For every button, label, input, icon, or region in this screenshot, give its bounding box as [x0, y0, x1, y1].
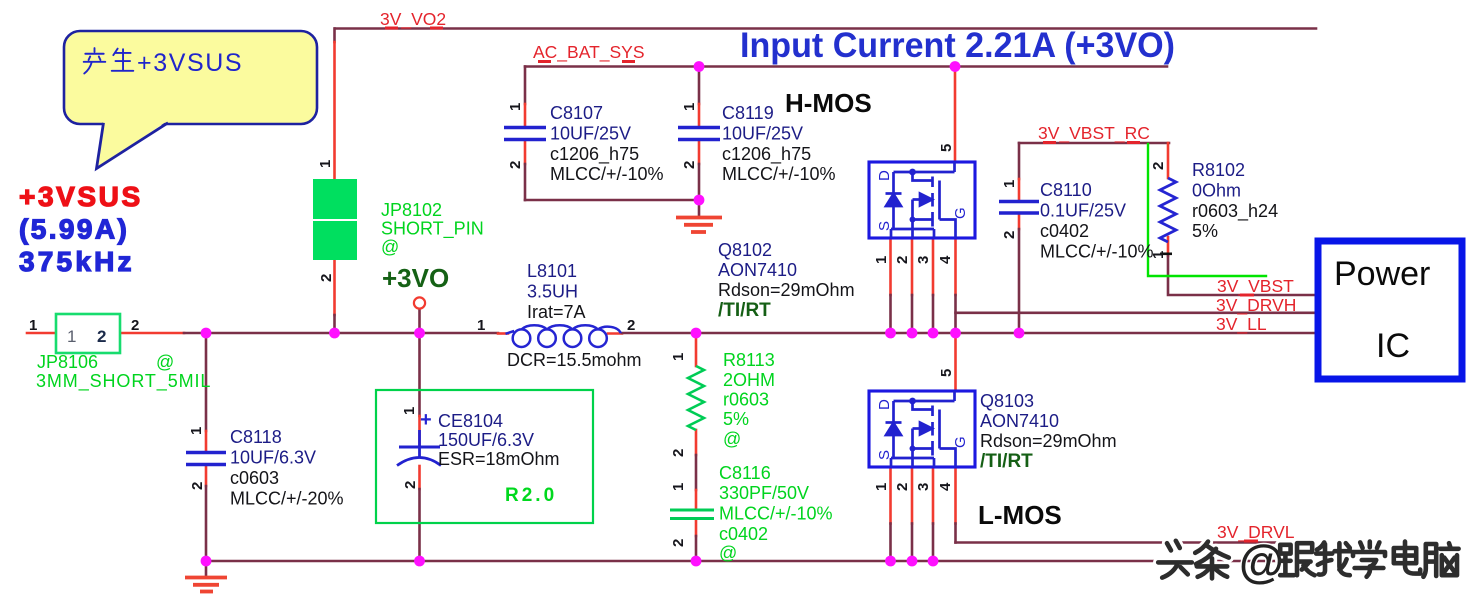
svg-text:2: 2	[131, 317, 139, 334]
svg-text:R8113: R8113	[723, 350, 775, 370]
wire 3V_VBST elbow to Power IC	[1168, 256, 1315, 295]
svg-text:1: 1	[670, 483, 687, 491]
wire C8107 left vertical bottom	[524, 164, 527, 200]
svg-text:3.5UH: 3.5UH	[527, 282, 578, 302]
wire JP8102 pin2 vertical down to +3VO rail	[333, 257, 336, 315]
pin C8116.1 stub	[695, 490, 698, 508]
pin C8110.2 stub	[1018, 214, 1021, 229]
wire L8101 pin2 stub	[608, 332, 622, 335]
pin C8116.2 stub	[695, 521, 698, 536]
svg-text:5%: 5%	[1192, 221, 1218, 241]
svg-text:2: 2	[507, 161, 524, 169]
pin C8118.1 stub	[205, 431, 208, 451]
wire 3V_VBST_RC horizontal	[1019, 142, 1169, 145]
svg-text:L-MOS: L-MOS	[978, 500, 1062, 530]
svg-text:2: 2	[318, 274, 335, 282]
svg-text:CE8104: CE8104	[438, 411, 503, 431]
mosfet Q8102 symbol	[869, 162, 975, 238]
bubble text 产生+3VSUS	[84, 48, 243, 77]
pin Q8103.4 gate wire	[954, 467, 957, 524]
svg-text:1: 1	[401, 407, 418, 415]
svg-text:MLCC/+/-10%: MLCC/+/-10%	[1040, 242, 1154, 262]
svg-text:4: 4	[937, 255, 954, 264]
svg-text:3: 3	[915, 483, 932, 491]
wire C8119 vertical top	[698, 67, 701, 105]
wire +3VO terminal stub	[418, 309, 421, 333]
svg-text:2: 2	[681, 161, 698, 169]
pin Q8102.3 wire	[932, 238, 935, 295]
pin R8113.2 stub	[695, 430, 698, 455]
resistor R8102	[1160, 178, 1176, 242]
svg-text:/TI/RT: /TI/RT	[980, 451, 1033, 472]
svg-text:4: 4	[937, 482, 954, 491]
svg-text:Irat=7A: Irat=7A	[527, 302, 586, 322]
resistor R8113	[688, 366, 704, 430]
Power IC box	[1318, 241, 1462, 379]
watermark 头条 @跟我学电脑	[1158, 535, 1458, 587]
wire CE8104 vertical top	[418, 333, 421, 416]
speech bubble tail	[97, 121, 169, 169]
svg-text:5: 5	[938, 144, 955, 152]
wire GND bottom rail	[206, 560, 1313, 563]
svg-text:c1206_h75: c1206_h75	[722, 144, 811, 165]
svg-text:10UF/25V: 10UF/25V	[550, 124, 631, 144]
wire C8118 vertical top	[205, 333, 208, 431]
junction dots on AC_BAT_SYS wire	[694, 61, 705, 72]
svg-text:@: @	[156, 352, 174, 372]
wire JP8102 pin1 vertical (3V_VO2 down to jumper)	[333, 29, 336, 43]
pin Q8102.2 wire	[911, 238, 914, 295]
svg-text:2: 2	[670, 449, 687, 457]
wire C8110 vertical top	[1018, 143, 1021, 179]
svg-text:c0603: c0603	[230, 468, 279, 488]
svg-text:5%: 5%	[723, 409, 749, 429]
junction dots on +3VO / 3V_LL rail	[201, 61, 1025, 566]
svg-text:ESR=18mOhm: ESR=18mOhm	[438, 449, 560, 469]
pin CE8104.2 stub	[418, 466, 421, 489]
svg-text:L8101: L8101	[527, 261, 577, 281]
svg-text:@: @	[1239, 535, 1284, 587]
svg-text:c0402: c0402	[719, 524, 768, 544]
wire +3VO rail horizontal (JP8106 to L8101 pin1)	[184, 332, 498, 335]
svg-text:AC_BAT_SYS: AC_BAT_SYS	[533, 42, 645, 63]
wire AC_BAT_SYS horizontal	[525, 65, 1167, 68]
ground at GND rail bottom left	[185, 561, 227, 592]
svg-text:3V_VBST: 3V_VBST	[1217, 276, 1294, 297]
pin C8118.2 stub	[205, 466, 208, 486]
wire JP8106 pin2 stub right	[120, 332, 184, 335]
svg-text:MLCC/+/-20%: MLCC/+/-20%	[230, 489, 344, 509]
wire 3V_DRVL horizontal	[956, 541, 1314, 544]
svg-text:Q8103: Q8103	[980, 391, 1034, 411]
svg-text:375kHz: 375kHz	[19, 246, 135, 277]
svg-text:1: 1	[317, 160, 334, 168]
svg-text:2: 2	[1150, 162, 1167, 170]
svg-text:c0402: c0402	[1040, 221, 1089, 241]
capacitor C8110	[999, 202, 1039, 214]
svg-text:C8107: C8107	[550, 103, 603, 123]
svg-text:0Ohm: 0Ohm	[1192, 181, 1241, 201]
svg-text:D: D	[876, 170, 893, 181]
pin Q8102.5 drain wire from AC_BAT_SYS	[954, 67, 957, 163]
svg-text:2OHM: 2OHM	[723, 370, 775, 390]
pin C8110.1 stub	[1018, 179, 1021, 200]
wire C8107 bottom horizontal to ground node	[525, 199, 699, 202]
CE8104 green outline box	[376, 390, 593, 523]
svg-text:JP8102: JP8102	[381, 200, 442, 220]
pin C8119.2 stub	[698, 141, 701, 164]
svg-text:r0603: r0603	[723, 390, 769, 410]
wire JP8106 pin1 stub left	[27, 332, 56, 335]
svg-text:10UF/25V: 10UF/25V	[722, 124, 803, 144]
svg-text:C8118: C8118	[230, 427, 282, 447]
svg-text:D: D	[876, 399, 893, 410]
svg-text:330PF/50V: 330PF/50V	[719, 483, 809, 503]
mosfet Q8103 symbol	[869, 391, 975, 467]
svg-text:2: 2	[894, 483, 911, 491]
svg-text:AON7410: AON7410	[718, 260, 797, 280]
svg-text:@: @	[381, 237, 399, 257]
svg-text:+3VSUS: +3VSUS	[137, 49, 243, 77]
svg-text:1: 1	[1150, 251, 1167, 259]
svg-text:2: 2	[402, 481, 419, 489]
svg-text:MLCC/+/-10%: MLCC/+/-10%	[550, 164, 664, 184]
jumper JP8102 (two green pads)	[313, 179, 357, 260]
svg-text:2: 2	[894, 256, 911, 264]
connector JP8106	[56, 314, 120, 353]
pin C8107.1 stub	[524, 104, 527, 126]
speech bubble box	[64, 31, 317, 124]
wire C8119 vertical bottom	[698, 164, 701, 200]
svg-text:3V_LL: 3V_LL	[1216, 314, 1267, 335]
pin Q8103.2 wire	[911, 467, 914, 524]
svg-text:2: 2	[627, 317, 635, 334]
terminal +3VO circle	[414, 297, 425, 308]
svg-text:1: 1	[67, 327, 76, 346]
svg-text:+: +	[420, 409, 432, 431]
svg-text:2: 2	[1001, 231, 1018, 239]
svg-text:Input Current 2.21A (+3VO): Input Current 2.21A (+3VO)	[740, 26, 1175, 65]
wire CE8104 vertical bottom	[418, 489, 421, 561]
svg-text:3: 3	[915, 256, 932, 264]
pin CE8104.1 stub	[418, 416, 421, 445]
svg-text:R2.0: R2.0	[505, 485, 557, 506]
svg-text:1: 1	[29, 317, 37, 334]
svg-text:2: 2	[97, 327, 106, 346]
svg-text:10UF/6.3V: 10UF/6.3V	[230, 448, 316, 468]
svg-text:IC: IC	[1376, 327, 1410, 365]
svg-text:1: 1	[507, 103, 524, 111]
svg-text:3V_VBST_RC: 3V_VBST_RC	[1038, 123, 1150, 144]
pin R8113.1 stub from 3V_LL rail	[695, 333, 698, 366]
wire R8113 to C8116	[695, 455, 698, 490]
svg-text:H-MOS: H-MOS	[785, 88, 872, 118]
svg-text:(5.99A): (5.99A)	[19, 214, 129, 245]
svg-text:r0603_h24: r0603_h24	[1192, 201, 1278, 222]
svg-text:2: 2	[189, 482, 206, 490]
wire 3V_LL rail horizontal (L8101 pin2 to Power IC)	[622, 332, 1315, 335]
pin C8119.1 stub	[698, 104, 701, 126]
wire 3V_DRVH horizontal to Power IC	[956, 311, 1316, 314]
svg-text:Rdson=29mOhm: Rdson=29mOhm	[980, 431, 1117, 451]
junction dots on GND rail	[201, 556, 212, 567]
svg-text:Power: Power	[1334, 255, 1430, 293]
wire green stub off 3V_VBST_RC	[1148, 144, 1266, 276]
svg-text:3V_DRVH: 3V_DRVH	[1216, 295, 1296, 316]
svg-text:1: 1	[188, 427, 205, 435]
svg-text:S: S	[876, 450, 893, 460]
svg-text:150UF/6.3V: 150UF/6.3V	[438, 430, 534, 450]
capacitor C8119	[678, 128, 720, 140]
svg-text:G: G	[952, 207, 969, 219]
svg-text:3MM_SHORT_5MIL: 3MM_SHORT_5MIL	[36, 371, 211, 392]
svg-text:+3VO: +3VO	[382, 263, 449, 293]
ground at C8119/C8107 node	[676, 200, 722, 232]
svg-text:@: @	[719, 543, 737, 563]
svg-text:C8110: C8110	[1040, 180, 1092, 200]
wire L8101 pin1 stub	[498, 332, 508, 335]
svg-text:2: 2	[670, 539, 687, 547]
svg-text:MLCC/+/-10%: MLCC/+/-10%	[719, 504, 833, 524]
svg-text:1: 1	[681, 103, 698, 111]
svg-text:R8102: R8102	[1192, 160, 1245, 180]
svg-text:c1206_h75: c1206_h75	[550, 144, 639, 165]
svg-text:+3VSUS: +3VSUS	[19, 181, 143, 212]
svg-text:1: 1	[670, 353, 687, 361]
svg-text:5: 5	[938, 369, 955, 377]
capacitor C8116	[670, 510, 714, 519]
svg-text:JP8106: JP8106	[37, 352, 98, 372]
wire C8110 vertical to 3V_LL rail	[1018, 229, 1021, 333]
pin Q8103.1 wire	[889, 467, 892, 524]
svg-text:Q8102: Q8102	[718, 240, 772, 260]
svg-text:Rdson=29mOhm: Rdson=29mOhm	[718, 280, 855, 300]
svg-text:0.1UF/25V: 0.1UF/25V	[1040, 201, 1126, 221]
junction dot at C8107/C8119 ground node	[694, 195, 705, 206]
svg-text:1: 1	[873, 256, 890, 264]
svg-text:1: 1	[1001, 180, 1018, 188]
wire C8118 vertical bottom	[205, 486, 208, 561]
pin Q8102.1 wire	[889, 238, 892, 295]
pin Q8103.3 wire	[932, 467, 935, 524]
svg-text:AON7410: AON7410	[980, 411, 1059, 431]
svg-text:S: S	[876, 221, 893, 231]
capacitor C8107	[504, 128, 546, 140]
svg-text:DCR=15.5mohm: DCR=15.5mohm	[507, 350, 642, 370]
svg-text:1: 1	[873, 483, 890, 491]
pin Q8102.4 gate wire	[954, 238, 957, 295]
pin Q8103.5 drain wire from 3V_LL rail	[954, 333, 957, 391]
svg-text:MLCC/+/-10%: MLCC/+/-10%	[722, 164, 836, 184]
pin numbers R8102	[1160, 253, 1172, 256]
wire C8116 vertical to GND rail	[695, 536, 698, 561]
pin R8102.1 stub	[1167, 237, 1170, 256]
inductor L8101	[506, 325, 621, 347]
svg-text:@: @	[723, 429, 741, 449]
wire 3V_VO2 horizontal top	[335, 27, 1316, 30]
wire C8107 left vertical top	[524, 67, 527, 105]
svg-text:C8116: C8116	[719, 463, 771, 483]
svg-text:G: G	[952, 436, 969, 448]
capacitor C8118	[186, 453, 226, 465]
svg-text:/TI/RT: /TI/RT	[718, 300, 771, 321]
svg-text:1: 1	[477, 317, 485, 334]
pin C8107.2 stub	[524, 141, 527, 164]
svg-text:C8119: C8119	[722, 103, 774, 123]
pin R8102.2 stub	[1167, 143, 1170, 178]
capacitor CE8104 electrolytic	[397, 430, 441, 466]
